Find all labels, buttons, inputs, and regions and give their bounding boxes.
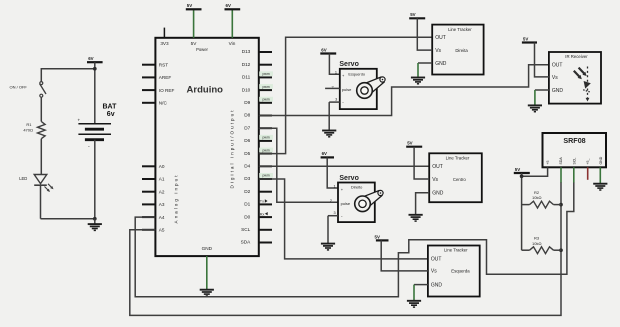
- svg-text:ON / OFF: ON / OFF: [10, 85, 28, 90]
- svg-text:Direito: Direito: [351, 185, 362, 190]
- svg-text:A1: A1: [159, 177, 165, 182]
- svg-text:Vs: Vs: [435, 48, 441, 54]
- svg-text:Esquerdo: Esquerdo: [348, 72, 365, 77]
- svg-text:D1: D1: [244, 202, 250, 207]
- svg-text:D8: D8: [244, 113, 250, 118]
- svg-text:2: 2: [330, 199, 332, 203]
- svg-text:pwm: pwm: [263, 98, 270, 102]
- svg-text:Servo: Servo: [339, 61, 358, 68]
- svg-text:OUT: OUT: [431, 257, 442, 263]
- svg-text:D5: D5: [244, 151, 250, 156]
- svg-text:AREF: AREF: [159, 75, 172, 80]
- svg-text:5V: 5V: [523, 36, 528, 41]
- svg-text:IO REF: IO REF: [159, 88, 175, 93]
- svg-text:10kΩ: 10kΩ: [532, 241, 541, 246]
- svg-text:Tx: Tx: [260, 200, 264, 204]
- svg-text:D2: D2: [244, 189, 250, 194]
- svg-text:D11: D11: [242, 75, 251, 80]
- svg-text:D13: D13: [242, 49, 251, 54]
- svg-text:pwm: pwm: [263, 136, 270, 140]
- svg-text:D4: D4: [244, 164, 250, 169]
- svg-text:470Ω: 470Ω: [23, 128, 33, 133]
- svg-text:D3: D3: [244, 176, 250, 181]
- svg-text:5V: 5V: [410, 12, 415, 17]
- svg-text:Direita: Direita: [455, 48, 468, 53]
- svg-text:Vs: Vs: [431, 269, 437, 275]
- svg-text:Line Tracker: Line Tracker: [446, 156, 470, 161]
- svg-text:6V: 6V: [226, 3, 231, 8]
- svg-text:GND: GND: [435, 61, 447, 67]
- svg-text:Analog Input: Analog Input: [173, 175, 178, 224]
- svg-text:Vs: Vs: [552, 75, 558, 81]
- svg-text:Esquerda: Esquerda: [451, 269, 470, 274]
- svg-text:6V: 6V: [322, 151, 327, 156]
- svg-text:GND: GND: [552, 88, 564, 94]
- svg-text:OUT: OUT: [435, 35, 446, 41]
- svg-text:OUT: OUT: [552, 63, 563, 69]
- svg-text:3V3: 3V3: [160, 41, 169, 46]
- svg-text:R2: R2: [534, 190, 540, 195]
- svg-text:OUT: OUT: [432, 164, 443, 170]
- svg-text:5V: 5V: [187, 3, 192, 8]
- svg-text:D0: D0: [244, 214, 250, 219]
- svg-text:-: -: [88, 144, 90, 150]
- svg-text:Arduino: Arduino: [187, 84, 224, 95]
- svg-text:3: 3: [335, 97, 337, 101]
- svg-text:GND: GND: [431, 282, 443, 288]
- svg-text:BAT: BAT: [103, 103, 118, 110]
- svg-text:A4: A4: [159, 215, 165, 220]
- svg-text:+5_: +5_: [586, 159, 590, 165]
- svg-text:Line Tracker: Line Tracker: [444, 248, 468, 253]
- svg-text:D6: D6: [244, 138, 250, 143]
- svg-text:R1: R1: [26, 122, 32, 127]
- svg-text:D9: D9: [244, 100, 250, 105]
- svg-text:pulse: pulse: [341, 201, 351, 206]
- svg-text:Vin: Vin: [229, 41, 236, 46]
- svg-text:A0: A0: [159, 164, 165, 169]
- svg-text:Vs: Vs: [432, 177, 438, 183]
- svg-text:5V: 5V: [515, 167, 520, 172]
- svg-text:6V: 6V: [321, 47, 326, 52]
- svg-text:A2: A2: [159, 189, 165, 194]
- svg-text:R3: R3: [534, 235, 540, 240]
- svg-text:SDA: SDA: [241, 240, 252, 245]
- svg-text:3: 3: [333, 211, 335, 215]
- svg-text:D10: D10: [242, 87, 251, 92]
- svg-text:+5: +5: [546, 160, 550, 164]
- svg-text:1: 1: [333, 184, 335, 188]
- svg-text:D12: D12: [242, 62, 251, 67]
- svg-text:Servo: Servo: [339, 175, 358, 182]
- svg-text:pulse: pulse: [342, 87, 352, 92]
- svg-text:pwm: pwm: [263, 148, 270, 152]
- svg-text:6v: 6v: [107, 111, 115, 118]
- svg-text:5V: 5V: [407, 141, 412, 146]
- svg-text:RST: RST: [159, 62, 169, 67]
- svg-text:6V: 6V: [88, 56, 93, 61]
- svg-text:SCL: SCL: [572, 158, 576, 165]
- svg-text:SCL: SCL: [241, 227, 251, 232]
- svg-text:5V: 5V: [375, 234, 380, 239]
- svg-text:pwm: pwm: [263, 85, 270, 89]
- svg-text:10kΩ: 10kΩ: [532, 195, 541, 200]
- svg-text:IR Receiver: IR Receiver: [565, 54, 588, 59]
- svg-text:LED: LED: [19, 176, 27, 181]
- svg-text:GND: GND: [202, 246, 213, 251]
- svg-text:Centro: Centro: [453, 177, 467, 182]
- svg-text:5V: 5V: [191, 41, 198, 46]
- svg-text:A5: A5: [159, 228, 165, 233]
- svg-text:pwm: pwm: [263, 174, 270, 178]
- svg-text:+: +: [78, 117, 81, 122]
- svg-text:GND: GND: [432, 191, 444, 197]
- svg-text:1: 1: [335, 71, 337, 75]
- svg-text:A3: A3: [159, 202, 165, 207]
- svg-text:SDA: SDA: [559, 157, 563, 165]
- svg-text:Rx: Rx: [260, 212, 265, 216]
- svg-text:GND: GND: [599, 156, 603, 164]
- svg-text:SRF08: SRF08: [563, 136, 585, 145]
- svg-text:N/C: N/C: [159, 101, 168, 106]
- svg-text:D7: D7: [244, 125, 250, 130]
- svg-text:Line Tracker: Line Tracker: [448, 27, 472, 32]
- svg-text:Power: Power: [196, 47, 208, 52]
- svg-text:pwm: pwm: [263, 72, 270, 76]
